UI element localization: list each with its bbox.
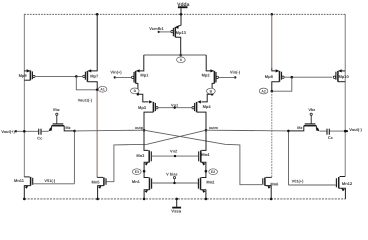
svg-text:Mp4: Mp4 (203, 104, 212, 109)
wire V01(+) riser to Vout(-) line (288, 131, 290, 185)
svg-text:Mn12: Mn12 (342, 181, 353, 186)
node A1 junction (96, 89, 99, 92)
svg-text:Mz: Mz (65, 125, 70, 130)
wire gate junction down to node A2 (272, 77, 292, 91)
node Vp1 (171, 102, 179, 109)
svg-text:Vn2: Vn2 (170, 149, 178, 154)
node ground junction Mn5 (96, 198, 99, 201)
transistor Mp1 (131, 55, 149, 94)
wire Cc to Mz (42, 130, 49, 132)
svg-text:Mn5: Mn5 (92, 179, 101, 184)
svg-text:V bias: V bias (166, 172, 177, 177)
transistor Mz left (49, 107, 75, 131)
svg-text:Mp10: Mp10 (338, 74, 349, 79)
wire Vcmfb1 to Mp13 gate (159, 31, 171, 33)
wire rail to Mp8 source (271, 14, 273, 68)
node gate junction right (291, 76, 294, 79)
node outm (205, 126, 219, 131)
node Vn2 (170, 149, 178, 158)
transistor Mp3 (138, 94, 158, 130)
node D label bubble (131, 88, 140, 94)
svg-text:Mn6: Mn6 (270, 181, 279, 186)
transistor Mn1 (132, 171, 152, 199)
transistor Mn12 (336, 177, 352, 199)
net Vout1(-) label (78, 98, 93, 103)
node tail junction (179, 54, 182, 57)
port Vout(+) (1, 129, 17, 134)
wire tail rail (144, 54, 206, 56)
node A2 junction (271, 90, 274, 93)
node Mp2 drain junction (211, 93, 214, 96)
transistor Mn3 (136, 130, 151, 171)
wire right output branch vertical (344, 14, 346, 176)
svg-text:E3: E3 (135, 170, 139, 174)
transistor Mn11 (14, 177, 33, 199)
port V bias (166, 172, 177, 185)
node ground junction Mn11 (23, 198, 26, 201)
wire outp cross-couple to Mn6 gate (144, 130, 262, 185)
node E2 junction (205, 170, 208, 173)
wire node A1 to Mn5 drain (96, 90, 98, 178)
svg-text:Mp9: Mp9 (19, 73, 28, 78)
node Vout(-) branch junction (344, 130, 347, 133)
transistor Mz right (288, 107, 319, 131)
wire Mp9 gate to Mp7 gate (35, 75, 82, 77)
node B label bubble (207, 88, 216, 94)
node Vout(+) branch junction (23, 130, 26, 133)
svg-text:Cc: Cc (37, 136, 43, 141)
net Vn2 wire (152, 155, 198, 157)
transistor Mp8 (265, 68, 284, 91)
wire Vout(+) to Cc (16, 130, 38, 132)
net V bias wire (152, 182, 197, 184)
svg-text:Vout(-): Vout(-) (349, 127, 362, 132)
svg-text:V01(+): V01(+) (292, 179, 304, 184)
svg-text:Vout1(-): Vout1(-) (78, 98, 93, 103)
node ground junction Mn1 (143, 198, 146, 201)
port Vout(-) (346, 127, 363, 132)
node rail junction center (180, 13, 183, 16)
transistor Mp13 (171, 14, 187, 55)
wire V01(-) riser to Vout(+) line (73, 131, 75, 184)
svg-text:Mp8: Mp8 (265, 74, 274, 79)
transistor Mn5 (92, 177, 107, 199)
svg-text:Vin(+): Vin(+) (110, 70, 122, 75)
node E3 junction (143, 170, 146, 173)
svg-text:Vcmfb1: Vcmfb1 (149, 26, 164, 31)
wire Mp2 gate to Vin(-) (219, 76, 236, 78)
svg-text:Mn4: Mn4 (201, 152, 210, 157)
wire Mz to Cc right (320, 130, 327, 132)
svg-text:V01(-): V01(-) (44, 178, 56, 183)
svg-text:Vout(+): Vout(+) (1, 129, 15, 134)
svg-text:Mn2: Mn2 (206, 179, 215, 184)
port Vin(-) (230, 70, 241, 79)
node rail junction left (96, 13, 99, 16)
node E2 label bubble (209, 169, 218, 175)
transistor Mn4 (199, 130, 210, 171)
power Vdda supply symbol (177, 2, 189, 14)
node E3 label bubble (133, 169, 142, 175)
svg-text:Mp7: Mp7 (90, 74, 99, 79)
wire Mp8 gate to Mp10 gate (284, 76, 332, 78)
node ground junction Vssa (175, 198, 178, 201)
port Vin(+) (110, 70, 122, 79)
svg-text:Mz: Mz (297, 125, 302, 130)
svg-text:Vp1: Vp1 (171, 102, 179, 107)
wire Vin(+) to Mp1 gate (115, 76, 132, 78)
svg-text:Cc: Cc (328, 135, 334, 140)
node outp (135, 126, 145, 132)
wire outm cross-couple to Mn5 gate (107, 130, 206, 182)
wire Vssa ground rail (24, 198, 345, 200)
transistor Mp9 (19, 69, 35, 80)
wire Vdda rail (24, 13, 345, 15)
svg-text:Mn11: Mn11 (14, 178, 25, 183)
node A2 label bubble (259, 88, 268, 94)
wire gate junction down to node A1 (76, 76, 97, 89)
wire left output branch vertical (23, 14, 25, 177)
transistor Mp7 (83, 14, 99, 90)
wire Cc to Vout(-) (330, 130, 347, 132)
wire outm to V01(+) tap (206, 129, 288, 132)
svg-text:Mp1: Mp1 (140, 72, 149, 77)
wire node A2 to Mn6 drain (271, 91, 273, 177)
transistor Mp2 (202, 55, 219, 94)
svg-text:E2: E2 (211, 170, 215, 174)
node tail label bubble (177, 57, 186, 63)
net Vp1 wire (158, 107, 192, 109)
node ground junction Mn2 (205, 198, 208, 201)
svg-text:Vin(-): Vin(-) (230, 70, 241, 75)
svg-text:A1: A1 (100, 88, 104, 92)
wire Mn11 gate V01(-) (33, 178, 74, 184)
svg-text:Mp2: Mp2 (202, 72, 211, 77)
node V01(+) tap junction (287, 130, 290, 133)
capacitor Cc right (327, 129, 334, 141)
svg-text:6: 6 (180, 58, 182, 62)
svg-text:Mp3: Mp3 (138, 105, 147, 110)
svg-text:Vbz: Vbz (308, 107, 315, 112)
svg-text:Vbz: Vbz (53, 107, 60, 112)
transistor Mn6 (263, 177, 279, 199)
svg-text:Mn1: Mn1 (132, 179, 141, 184)
svg-text:outp: outp (135, 126, 144, 130)
node Mp1 drain junction (137, 93, 140, 96)
wire Mz to outp (75, 129, 144, 132)
capacitor Cc left (37, 129, 43, 141)
svg-text:Mn3: Mn3 (136, 153, 145, 158)
node rail junction right (271, 13, 274, 16)
svg-text:A2: A2 (261, 89, 265, 93)
ground Vssa supply symbol (171, 199, 181, 214)
node A1 label bubble (98, 86, 107, 92)
transistor Mp10 (333, 69, 349, 81)
transistor Mp4 (192, 94, 212, 130)
svg-text:Mp13: Mp13 (176, 30, 187, 35)
node ground junction Mn6 (270, 198, 273, 201)
transistor Mn2 (198, 171, 215, 199)
svg-text:outm: outm (209, 126, 219, 130)
node gate junction left (75, 75, 78, 78)
node V01(-) tap junction (73, 130, 76, 133)
svg-text:Vssa: Vssa (171, 209, 181, 214)
port Vcmfb1 (149, 26, 164, 33)
wire Mn12 gate V01(+) (289, 179, 336, 185)
